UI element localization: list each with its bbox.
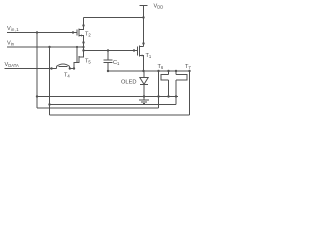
svg-text:OLED: OLED: [121, 80, 137, 86]
svg-text:T2: T2: [85, 32, 91, 38]
svg-text:T5: T5: [85, 59, 91, 65]
svg-text:Vin: Vin: [7, 41, 15, 47]
svg-text:C1: C1: [113, 60, 120, 66]
svg-text:VDATA: VDATA: [5, 62, 19, 68]
svg-text:VDD: VDD: [154, 4, 164, 10]
svg-text:T1: T1: [146, 53, 152, 59]
svg-text:T7: T7: [185, 64, 191, 70]
svg-text:Vin,1: Vin,1: [7, 26, 19, 32]
svg-text:T4: T4: [64, 73, 70, 79]
svg-text:T6: T6: [158, 64, 164, 70]
